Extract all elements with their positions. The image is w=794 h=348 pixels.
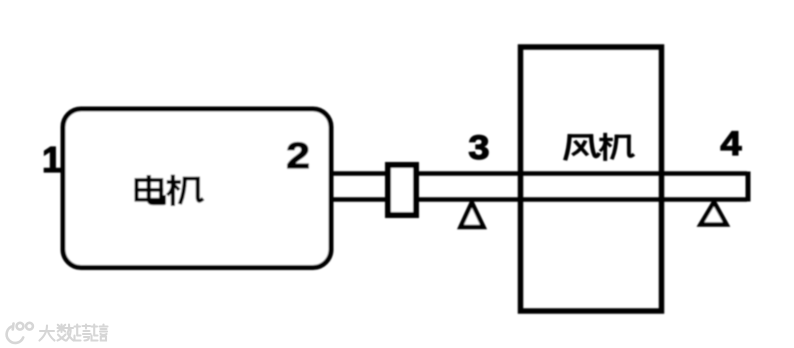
shaft end cap (746, 172, 751, 202)
svg-text:3: 3 (468, 128, 489, 167)
bearing support triangle (left) (461, 203, 484, 228)
char 电 (137, 177, 164, 203)
fan housing box (521, 47, 662, 311)
char 风 (566, 136, 599, 159)
watermark text 大数跨境 (40, 325, 108, 341)
coupling on shaft (388, 165, 416, 215)
watermark logo (7, 323, 33, 343)
label 4 (720, 124, 741, 163)
svg-text:4: 4 (720, 124, 741, 163)
bearing support triangle (right) (701, 202, 727, 225)
svg-text:2: 2 (286, 136, 310, 176)
label 电机 (motor) (137, 177, 202, 205)
motor box M1 (63, 109, 331, 268)
shaft (331, 174, 747, 200)
char 机 (left) (169, 177, 202, 205)
svg-text:1: 1 (42, 139, 62, 180)
char 机 (right) (601, 135, 633, 160)
label 风机 (fan) (566, 135, 633, 160)
label 2 (286, 136, 310, 176)
label 3 (468, 128, 489, 167)
